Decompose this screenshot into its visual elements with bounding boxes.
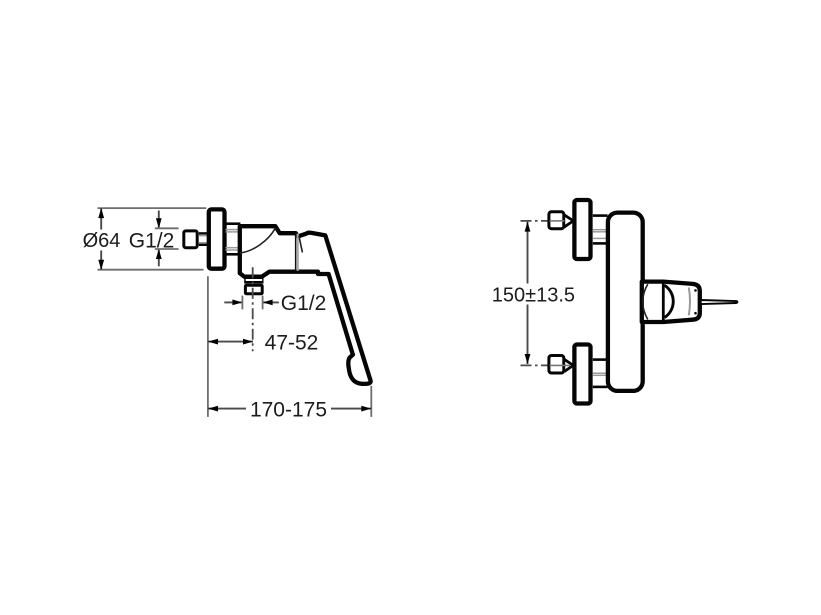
bottom stem flange-to-body (593, 358, 608, 361)
extension line left (flange edge, shared) (207, 276, 209, 417)
extension line bottom (flange bottom, for Ø64) (98, 269, 204, 271)
dimension 150±13.5 (527, 222, 529, 284)
svg-text:G1/2: G1/2 (281, 292, 327, 315)
svg-text:150±13.5: 150±13.5 (492, 284, 575, 306)
centerline bottom inlet (521, 364, 571, 366)
centerline top inlet (521, 220, 566, 222)
dimension G1/2 outlet (horizontal, arrows outside) (224, 301, 242, 303)
hub straight separator (662, 282, 665, 321)
outlet boss bar (244, 277, 263, 284)
inlet stem between nut and flange (199, 232, 207, 234)
handle hub (front, seen end-on) (642, 282, 700, 322)
svg-text:170-175: 170-175 (250, 398, 327, 421)
hub arc near body (643, 284, 648, 319)
mixer body capsule (front) (608, 213, 643, 391)
outlet centerline (dash-dot) (252, 267, 254, 351)
dimension G1/2 inlet (vertical, arrows outside) (158, 211, 160, 229)
arrow G1/2 up (156, 249, 162, 259)
end cap screw dots (694, 289, 697, 292)
dimension 170-175 (208, 408, 371, 410)
threaded connector between flange and body (226, 222, 241, 225)
bottom inlet nut (front) (549, 356, 564, 374)
extension line top (flange top, for Ø64) (98, 207, 207, 209)
extension lines G1/2 inlet (155, 227, 179, 229)
arrow Ø64 down (98, 260, 104, 270)
hub ring arc (drum edge) (665, 285, 674, 317)
cartridge seam (vertical) (295, 233, 297, 271)
top wall flange (front) (574, 200, 590, 259)
arrow G1/2 down (156, 218, 162, 228)
bottom wall flange (front) (574, 345, 590, 404)
svg-text:47-52: 47-52 (265, 331, 319, 354)
top inlet neck (565, 214, 574, 229)
lever blade (edge-on) (701, 300, 738, 304)
svg-text:Ø64: Ø64 (83, 230, 121, 252)
spherical joint arc inside body (240, 228, 275, 253)
outlet nut G1/2 (bottom) (245, 285, 262, 294)
inlet nut G1/2 (side) (184, 231, 197, 248)
arrow outlet right (232, 300, 242, 306)
mixer body with lever handle (side view outline) (240, 226, 371, 384)
arrow outlet left (263, 300, 273, 306)
hub gray arc (cap edge) (689, 287, 690, 315)
svg-text:G1/2: G1/2 (129, 230, 175, 253)
centerline through bottom nut (550, 364, 571, 366)
bottom inlet neck (565, 358, 574, 373)
dimension line Ø64 (100, 208, 102, 229)
extension ticks outlet (241, 296, 243, 310)
wall flange (side view) (209, 209, 225, 268)
dimension 47-52 (208, 341, 253, 343)
centerline through top nut (550, 220, 565, 222)
top inlet nut (front) (549, 212, 564, 229)
arrow Ø64 up (98, 208, 104, 218)
top stem flange-to-body (593, 214, 608, 217)
extension line right (handle tip) (370, 386, 372, 417)
cartridge inner edge (299, 236, 303, 253)
